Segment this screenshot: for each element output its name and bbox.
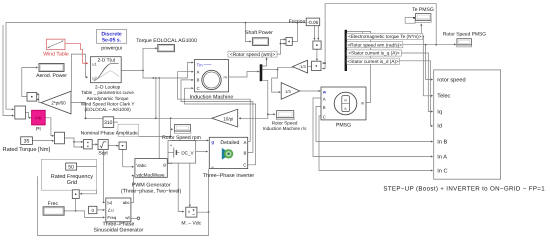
amplitude junction box — [118, 124, 139, 136]
gain -1/3 — [293, 60, 308, 73]
svg-text:B: B — [323, 105, 326, 110]
label PI — [36, 127, 41, 133]
demux bar — [260, 64, 263, 81]
powergui block — [97, 30, 127, 44]
label Rated Torque — [2, 146, 50, 153]
wire PMSG A to subsystem In A — [313, 98, 433, 158]
svg-text:|u|: |u| — [107, 200, 112, 205]
svg-text:Id: Id — [437, 123, 442, 130]
wire product down to Frec row — [75, 199, 77, 212]
product block amplitude — [119, 142, 126, 149]
wire Frec to sin generator Freq — [64, 211, 105, 219]
wire inverter B to machine B — [181, 79, 253, 153]
three-phase sinusoidal generator — [106, 198, 131, 222]
svg-text:Wind Table: Wind Table — [43, 51, 69, 57]
signal label electromagnetic torque — [347, 33, 423, 39]
display Shaft Power — [252, 38, 268, 46]
wire product up to top wire — [292, 23, 297, 42]
svg-text:B: B — [197, 78, 200, 83]
label Te PMSG — [412, 7, 434, 13]
caption STEP-UP — [383, 186, 545, 193]
three-phase inverter block — [209, 137, 247, 169]
scope Rotor Speed PMSG — [457, 39, 472, 47]
grouping box rated frequency — [41, 159, 96, 190]
svg-text:10/pi: 10/pi — [223, 116, 233, 121]
label lookup line3 — [87, 96, 129, 101]
wire PMSG m to bus selector — [346, 31, 371, 102]
svg-text:C: C — [323, 115, 326, 120]
label PMSG — [336, 122, 351, 128]
wire M Vdc loop bottom — [38, 176, 209, 235]
PMSG block — [321, 87, 366, 120]
gain 10/pi — [212, 109, 238, 127]
svg-text:abc: abc — [123, 200, 131, 205]
svg-text:<Stator current is_d (A)>: <Stator current is_d (A)> — [347, 59, 399, 64]
label Wind Table — [43, 51, 69, 57]
wire top to friction product — [297, 23, 319, 41]
scope helper box Te PMSG — [405, 17, 415, 23]
svg-text:rotor speed: rotor speed — [437, 76, 465, 83]
wire lookup output to torque display — [121, 47, 157, 71]
wire PWM g to inverter g — [167, 139, 209, 163]
svg-text:B: B — [243, 151, 246, 156]
svg-text:Detailed: Detailed — [220, 140, 239, 146]
wire Wind Table to lookup u1 (red) — [65, 43, 88, 64]
PID controller block — [32, 110, 46, 125]
svg-text:310: 310 — [104, 120, 113, 126]
wire product to Aerod Power display — [22, 66, 38, 96]
display Aerod Power — [39, 64, 64, 72]
product block freq — [72, 190, 79, 199]
svg-text:<Stator current is_q (A)>: <Stator current is_q (A)> — [348, 51, 400, 56]
signal label rotor speed wm radps — [347, 42, 403, 48]
wire friction product to sum — [316, 49, 318, 61]
signal label stator current isq — [347, 50, 402, 56]
label powergui — [101, 46, 122, 52]
product block shaft power — [286, 37, 292, 45]
wire junction down to PWM — [158, 77, 160, 159]
svg-text:5e-05 s.: 5e-05 s. — [102, 37, 122, 43]
scope Rotor Speed Induction Machine — [276, 111, 294, 120]
wire wt terminator — [131, 217, 137, 219]
svg-text:<Electromagnetic torque Te (N*: <Electromagnetic torque Te (N*m)> — [348, 34, 422, 39]
signal label stator current isd — [347, 58, 400, 64]
svg-text:2-D T(u): 2-D T(u) — [98, 57, 116, 63]
product block aerod — [27, 92, 37, 101]
wire demux down to gain 10/pi — [239, 80, 268, 119]
wire rotor speed to shaft display — [245, 23, 251, 43]
svg-text:∠u: ∠u — [107, 208, 114, 213]
label Nominal Phase Amplitude — [81, 130, 138, 136]
svg-text:Tm: Tm — [197, 62, 204, 67]
wire demux wm output — [262, 69, 278, 71]
svg-text:Frec: Frec — [48, 201, 59, 207]
svg-text:Sinusoidal Generator: Sinusoidal Generator — [94, 228, 144, 234]
display Frec — [43, 207, 64, 215]
svg-text:(Three−phase, Two−level): (Three−phase, Two−level) — [121, 188, 181, 194]
svg-text:Iq: Iq — [437, 109, 442, 115]
svg-text:ia: ia — [211, 165, 214, 169]
wire wm label to product — [277, 38, 286, 54]
mux block — [54, 132, 64, 144]
wire 50 to product — [77, 167, 97, 195]
svg-text:2–D Lookup: 2–D Lookup — [95, 84, 121, 89]
wire DC_V to M Vdc minus — [189, 163, 191, 207]
product block square — [84, 140, 93, 149]
wire wm label to rotor speed scope — [403, 43, 457, 45]
wire junction to rpm bus — [155, 77, 157, 118]
wire DC_V to M Vdc plus — [178, 163, 184, 212]
svg-text:2*pi/60: 2*pi/60 — [51, 101, 66, 106]
svg-text:Three−Phase Inverter: Three−Phase Inverter — [203, 173, 255, 179]
svg-text:PID: PID — [35, 117, 42, 121]
wire product down to PWM Vabc — [123, 149, 135, 167]
wire gain -1/3 to gain 1/3 — [272, 67, 294, 93]
svg-text:Sqrt: Sqrt — [98, 150, 108, 156]
bus selector bar — [345, 30, 347, 71]
svg-text:g: g — [211, 140, 214, 145]
svg-text:Friction: Friction — [289, 19, 306, 25]
wire rotor-speed feedback top — [6, 22, 298, 111]
svg-text:In C: In C — [437, 168, 447, 174]
svg-text:<Rotor speed (wm)>: <Rotor speed (wm)> — [230, 52, 276, 58]
svg-text:vdcModWave: vdcModWave — [136, 173, 165, 178]
constant 0 — [89, 206, 97, 213]
wire sum to gain -1/3 — [308, 65, 312, 67]
scope Rotor Speed rpm — [174, 125, 191, 134]
svg-text:<Rotor speed wm (rad/s)>: <Rotor speed wm (rad/s)> — [348, 42, 403, 47]
label M - Vdc — [181, 221, 201, 227]
svg-text:In B: In B — [437, 139, 447, 145]
label Torque EOLOCAL AG1000 — [136, 38, 197, 44]
wire amplitude to sin generator — [103, 150, 105, 204]
svg-text:Shaft Power: Shaft Power — [245, 30, 273, 36]
svg-text:Rotor Speed rpm: Rotor Speed rpm — [162, 135, 201, 141]
wire feedback branch left second — [3, 25, 14, 117]
wire 310 to scope branch — [114, 122, 172, 137]
voltage measurement M-Vdc — [186, 207, 197, 217]
svg-text:Wind Speed Rotor Clark Y: Wind Speed Rotor Clark Y — [81, 102, 135, 107]
wire PMSG C to subsystem In C — [319, 116, 433, 172]
svg-text:Te PMSG: Te PMSG — [412, 7, 434, 13]
svg-text:A: A — [197, 69, 200, 74]
svg-text:A: A — [243, 140, 246, 145]
label Induction Machine — [190, 94, 234, 100]
terminator circle — [137, 217, 140, 220]
wire product to sqrt — [92, 143, 98, 145]
label sin gen line2 — [94, 228, 144, 234]
subsystem step-up boost inverter — [434, 70, 501, 179]
wire friction constant down — [313, 26, 315, 41]
wire sqrt to product — [108, 145, 119, 147]
svg-text:C: C — [243, 162, 246, 167]
label lookup line5 — [84, 107, 131, 112]
wire Te label to scope — [420, 23, 422, 33]
label lookup line4 — [81, 102, 135, 107]
label Sqrt — [98, 150, 108, 156]
label PWM line1 — [132, 183, 171, 189]
svg-text:A: A — [323, 97, 326, 102]
label IM scope line1 — [272, 120, 298, 125]
wire PMSG B to subsystem In B — [316, 106, 433, 142]
constant 310 — [103, 117, 114, 128]
svg-text:S: S — [344, 107, 346, 111]
svg-text:Rotor Speed: Rotor Speed — [272, 120, 298, 125]
wire 35 to mux — [32, 140, 54, 142]
svg-text:PMSG: PMSG — [336, 122, 351, 128]
wire to gain 2*pi/60 input — [71, 103, 86, 120]
wire 0 to sin generator phase — [97, 209, 105, 211]
wire to lookup u2 — [72, 54, 89, 91]
sum block speed error — [15, 106, 26, 119]
svg-text:Induction Machine r/s: Induction Machine r/s — [263, 126, 307, 131]
wire rpm bus to scope — [171, 118, 174, 136]
svg-text:powergui: powergui — [101, 46, 122, 52]
svg-text:Aerodynamic Torque: Aerodynamic Torque — [87, 96, 129, 101]
label lookup line1 — [95, 84, 121, 89]
svg-text:50: 50 — [68, 165, 74, 171]
constant 50 — [66, 163, 77, 171]
signal label rotor speed wm — [228, 51, 277, 58]
wire inverter C to machine C — [185, 87, 256, 165]
wire inverter A to machine A — [178, 71, 251, 142]
wire gain output to product — [36, 93, 41, 102]
svg-text:u1: u1 — [92, 62, 97, 67]
induction machine block — [195, 60, 229, 92]
svg-text:Grid: Grid — [67, 180, 77, 186]
wire mux to product — [65, 138, 84, 148]
svg-text:Freq: Freq — [107, 215, 116, 220]
svg-text:DC_V: DC_V — [181, 151, 194, 156]
display Torque EOLOCAL AG1000 — [158, 45, 175, 52]
svg-text:Vabc: Vabc — [136, 163, 147, 168]
svg-text:Table _ parametrics curve: Table _ parametrics curve — [81, 90, 134, 95]
svg-text:(EOLOCAL – AG1000): (EOLOCAL – AG1000) — [84, 107, 131, 112]
svg-text:Induction Machine: Induction Machine — [190, 94, 234, 100]
label PWM line2 — [121, 188, 181, 194]
label Rotor Speed PMSG — [443, 31, 486, 37]
wire to induction speed scope — [267, 113, 276, 115]
svg-text:Telec: Telec — [437, 93, 450, 100]
svg-text:PI: PI — [36, 127, 41, 133]
constant -0.06 — [306, 18, 320, 26]
wire sum to PID — [26, 113, 32, 119]
wire M Vdc output up — [197, 169, 210, 213]
scope Te PMSG — [415, 14, 431, 23]
label Rotor Speed rpm — [162, 135, 201, 141]
sum block torque — [312, 61, 321, 70]
svg-text:Rated Torque [Nm]: Rated Torque [Nm] — [2, 146, 50, 153]
svg-text:STEP−UP (Boost) + INVERTER to: STEP−UP (Boost) + INVERTER to ON−GRID − … — [383, 186, 545, 193]
svg-text:-1/3: -1/3 — [299, 64, 307, 69]
wire wm label to subsystem rotor speed — [426, 45, 434, 81]
sqrt block — [98, 140, 108, 150]
wire gain 1/3 to PMSG w — [300, 90, 321, 92]
svg-text:Rotor Speed PMSG: Rotor Speed PMSG — [443, 31, 486, 37]
svg-text:Torque EOLOCAL AG1000: Torque EOLOCAL AG1000 — [136, 38, 197, 44]
product block friction — [313, 41, 321, 49]
label IM scope line2 — [263, 126, 307, 131]
svg-text:In A: In A — [437, 154, 447, 160]
svg-text:C: C — [197, 86, 200, 91]
label Frec — [48, 201, 59, 207]
wire abc to PWM vdcModWave — [131, 174, 134, 202]
PWM generator block — [135, 159, 167, 178]
svg-text:-0.06: -0.06 — [308, 20, 319, 25]
svg-text:35: 35 — [24, 139, 30, 145]
label Friction — [289, 19, 306, 25]
label sin gen line1 — [102, 222, 134, 228]
svg-text:1/3: 1/3 — [285, 89, 291, 94]
label Shaft Power — [245, 30, 273, 36]
wire lookup output to induction machine Tm — [143, 61, 194, 78]
label Three-Phase Inverter — [203, 173, 255, 179]
wire DC_V to inverter — [196, 150, 209, 152]
wire Te label to Telec — [422, 36, 433, 97]
label Aerod. Power — [36, 73, 67, 79]
gain 1/3 — [281, 83, 300, 100]
wire rotor speed wm top loop to sum — [322, 4, 437, 70]
lookup table 2-D — [91, 57, 122, 83]
label Grid — [67, 180, 77, 186]
svg-text:Aerod. Power: Aerod. Power — [36, 73, 67, 79]
DC voltage source DC_V — [168, 141, 196, 164]
wire is_d to Id — [399, 61, 433, 127]
label lookup line2 — [81, 90, 134, 95]
constant 35 — [21, 137, 33, 145]
wire rotor speed rpm bus — [85, 117, 212, 119]
wire is_q to Iq — [401, 53, 433, 113]
wire machine m to demux — [229, 70, 260, 77]
svg-text:M. – Vdc: M. – Vdc — [181, 221, 201, 227]
label Rated Frequency — [51, 174, 93, 180]
wire PID to mux — [45, 118, 54, 137]
svg-text:w: w — [322, 90, 327, 95]
source block Wind Table — [46, 39, 65, 49]
wire demux to rotor speed label — [262, 57, 268, 66]
svg-text:Nominal Phase Amplitude: Nominal Phase Amplitude — [81, 130, 138, 136]
gain 2*pi/60 — [41, 91, 71, 114]
